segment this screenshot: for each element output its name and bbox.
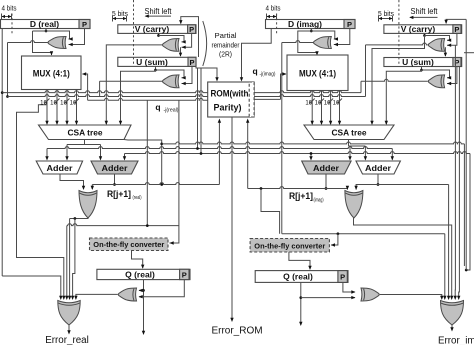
Adder left (gray) xyxy=(91,161,138,174)
wire into U (sum) right top xyxy=(444,47,446,56)
XOR gate of Q right parity xyxy=(361,288,379,301)
register D (real) xyxy=(1,20,91,29)
CSA tree right xyxy=(304,125,394,140)
svg-text:CSA tree: CSA tree xyxy=(68,128,103,138)
svg-text:-j(real): -j(real) xyxy=(164,108,179,114)
svg-text:MUX (4:1): MUX (4:1) xyxy=(299,68,336,78)
register U (sum) left xyxy=(118,57,196,66)
svg-text:16: 16 xyxy=(60,101,67,107)
wire junction to XOR-Dimag input a xyxy=(311,31,335,39)
long bus B2 (gray adder second inputs) xyxy=(124,154,126,160)
svg-text:P: P xyxy=(189,58,194,67)
wire P of D to XOR input b xyxy=(69,29,85,45)
horizontal bus L2 into ROM left xyxy=(6,95,9,98)
wire CSA-R output split to adders xyxy=(348,140,350,147)
Adder right (white) xyxy=(356,161,400,174)
left column wire v2: XOR-D parity to bus L2 xyxy=(7,43,9,97)
svg-text:P: P xyxy=(347,20,352,29)
right MUX output wires xyxy=(311,91,313,125)
wire XOR-V-R output to right CSA input xyxy=(366,43,428,45)
XOR gate of V (carry) right xyxy=(428,39,444,52)
svg-text:Q (real): Q (real) xyxy=(283,272,313,282)
shift-left annotation arrow (left) xyxy=(146,15,172,17)
wire D(imag) bottom junction xyxy=(310,29,312,32)
wire P of V-R to XOR input b xyxy=(447,33,457,45)
svg-text:P: P xyxy=(189,25,194,34)
wire D(real) bottom to junction xyxy=(45,29,47,32)
svg-text:4 bits: 4 bits xyxy=(2,4,17,13)
long cross line A to right final XOR xyxy=(162,142,465,144)
wire V bottom junction to XOR-V input a xyxy=(158,33,160,35)
parity bit P of U (sum) left xyxy=(188,57,196,66)
svg-text:Partial: Partial xyxy=(215,31,237,40)
wire Error_ROM output xyxy=(231,117,233,320)
svg-text:P: P xyxy=(340,273,345,282)
svg-text:(imag): (imag) xyxy=(314,198,324,204)
wire P of U-R to XOR input b xyxy=(447,67,457,84)
svg-text:(2R): (2R) xyxy=(219,50,232,59)
register Q (real) left xyxy=(97,269,190,279)
wire gray adder-R output to R-XOR-R and ROM feed B3R xyxy=(325,174,327,189)
svg-text:On-the-fly converter: On-the-fly converter xyxy=(93,240,164,249)
XOR gate of D (real) parity check xyxy=(48,37,66,49)
On-the-fly converter (right) xyxy=(250,239,329,253)
svg-text:5 bits: 5 bits xyxy=(112,9,128,18)
XOR gate of V (carry) left xyxy=(163,39,180,52)
wire shift wrap into V (carry) right top xyxy=(446,19,466,23)
register D (imag) xyxy=(266,20,356,29)
dashed bit line (right D) xyxy=(276,14,278,36)
svg-text:q: q xyxy=(253,66,258,76)
svg-text:16: 16 xyxy=(40,101,47,107)
svg-text:16: 16 xyxy=(315,101,322,107)
svg-text:CSA tree: CSA tree xyxy=(332,128,367,138)
left column wire v1: D register to final XOR input 1 xyxy=(1,29,3,277)
horizontal bus L1R from ROM right xyxy=(254,91,361,93)
wire to final XOR input 3 xyxy=(66,226,68,298)
svg-text:U (sum): U (sum) xyxy=(402,57,434,67)
wire U-R bottom to right CSA input xyxy=(386,70,421,124)
wire P of Q-L to XOR-Q input xyxy=(139,280,184,297)
wire Q-L output down and to XOR-Q input xyxy=(143,280,145,334)
XOR gate of U (sum) right xyxy=(428,75,444,88)
wire junction to XOR input a xyxy=(46,31,70,39)
svg-text:16: 16 xyxy=(50,101,57,107)
svg-text:Error_ROM: Error_ROM xyxy=(211,326,262,337)
wire converter-R output into Q (real) right xyxy=(289,252,310,269)
R[j+1] (real) XOR gate xyxy=(79,191,97,219)
svg-text:Shift left: Shift left xyxy=(411,7,439,16)
MUX (4:1) right xyxy=(287,55,348,91)
svg-text:-j(imag): -j(imag) xyxy=(260,72,276,78)
wire R-XOR output down-left to final XOR input 5 xyxy=(70,217,88,220)
On-the-fly converter (left) xyxy=(90,238,169,251)
wire XOR-U output down to bus xyxy=(100,80,162,82)
svg-text:V (carry): V (carry) xyxy=(135,24,170,34)
svg-text:D (imag): D (imag) xyxy=(288,19,322,29)
dashed bit line (right V/U) xyxy=(398,0,400,67)
parity bit P of D (real) xyxy=(79,20,90,29)
wire V-R bottom junction to XOR input a xyxy=(424,33,426,35)
svg-text:(real): (real) xyxy=(133,195,142,201)
svg-text:Q (real): Q (real) xyxy=(125,270,155,280)
right column: shift-wrap long feedback line xyxy=(465,19,467,270)
svg-text:D (real): D (real) xyxy=(30,19,59,29)
wire R-XOR-R output to final XOR input 4 xyxy=(354,218,452,298)
svg-text:Adder: Adder xyxy=(365,163,392,173)
svg-text:remainder: remainder xyxy=(212,40,240,49)
wire Q-R output down and to XOR-Q-R input xyxy=(300,282,302,324)
Adder right (gray) xyxy=(302,161,351,174)
right column: P-U-R parity down to final XOR input 6 xyxy=(458,67,461,298)
long bus B1 (second adder inputs, both halves) xyxy=(46,149,48,160)
wire XOR-V output to CSA input xyxy=(106,45,162,124)
dashed bit-boundary line (left D) xyxy=(11,14,13,36)
shift-left annotation arrow (right) xyxy=(410,16,437,18)
svg-text:V (carry): V (carry) xyxy=(401,24,436,34)
parity bit P of D (imag) xyxy=(344,20,355,29)
MUX left output wires (four, 16-bit) xyxy=(46,90,48,125)
partial remainder brace fragment (right edge) xyxy=(464,52,474,54)
wire P of D(imag) to XOR input b xyxy=(334,29,350,45)
left column wire v3: down to final XOR input 2 xyxy=(17,105,64,298)
wire white adder output to R-XOR xyxy=(60,174,84,189)
wire into U (sum) top xyxy=(180,47,182,56)
wire XOR-Dimag output long path to right converter and final XOR input 2 xyxy=(282,41,313,43)
svg-text:Error_real: Error_real xyxy=(45,335,89,345)
wire U-P region to ROM top input 1 xyxy=(196,66,217,80)
svg-text:P: P xyxy=(82,20,87,29)
Adder left (white) xyxy=(36,161,82,174)
svg-text:4 bits: 4 bits xyxy=(266,4,281,13)
wire XOR-U-R output to bus xyxy=(361,79,428,81)
wire ROM bottom input (right, from B3R) xyxy=(247,121,249,189)
wire shift wrap into V (carry) top xyxy=(181,17,199,57)
wire Error_imag output arrow xyxy=(451,325,453,330)
wire D(imag) to ROM top input 2 xyxy=(242,29,272,81)
svg-text:Shift left: Shift left xyxy=(145,7,173,16)
horizontal bus L1 into ROM left xyxy=(1,91,4,94)
wire P of V to XOR-V input b xyxy=(182,33,192,47)
wire white adder-R output to R-XOR-R and final XOR input 3 xyxy=(377,174,379,185)
center columns joining buses xyxy=(197,68,199,149)
register Q (real) right xyxy=(255,271,348,283)
wire Error_real output arrow xyxy=(68,325,70,333)
svg-text:U (sum): U (sum) xyxy=(136,57,168,67)
final parity XOR (Error_imag) xyxy=(441,301,464,326)
svg-text:5 bits: 5 bits xyxy=(378,9,394,18)
parity bit P of U right xyxy=(453,58,461,67)
svg-text:Adder: Adder xyxy=(313,163,340,173)
wire q(imag) from ROM to right MUX select xyxy=(254,98,280,100)
MUX (4:1) left xyxy=(22,56,82,90)
svg-text:P: P xyxy=(182,271,187,280)
wire XOR-D output going left (crosses MUX feed) xyxy=(8,41,48,43)
partial remainder brace (left) xyxy=(203,21,207,66)
XOR gate of U (sum) left xyxy=(163,75,180,88)
short link wire near CSA-L to B3 xyxy=(124,140,162,185)
right column: P-V-R parity down to final XOR input 5 xyxy=(454,45,456,297)
svg-text:Parity): Parity) xyxy=(214,103,242,113)
svg-text:16: 16 xyxy=(324,101,331,107)
svg-text:q: q xyxy=(155,102,160,112)
svg-text:16: 16 xyxy=(305,101,312,107)
parity bit P of V (carry) left xyxy=(188,25,196,34)
svg-text:MUX (4:1): MUX (4:1) xyxy=(33,68,70,78)
svg-text:Adder: Adder xyxy=(47,163,74,173)
wire U bottom to XOR-U input a xyxy=(155,66,157,70)
wire U bottom to CSA input xyxy=(121,70,156,124)
parity bit P of V right xyxy=(453,25,461,34)
wire P of Q-R to XOR-Q-R input xyxy=(343,282,355,292)
svg-text:R[j+1]: R[j+1] xyxy=(289,191,313,201)
parity bit P of Q left xyxy=(180,269,189,279)
XOR gate of Q (real) left parity xyxy=(118,288,136,301)
R[j+1] (imag) XOR gate xyxy=(345,191,363,219)
parity bit P of Q right xyxy=(338,271,347,283)
horizontal bus L2R from ROM right xyxy=(254,95,365,97)
wire V-R bottom to right CSA input xyxy=(372,36,425,125)
wire gray adder output to R-XOR and ROM feed B3L xyxy=(114,174,116,185)
wire junction to right MUX input xyxy=(298,31,317,55)
wire B3R tap down to converter-R feed line xyxy=(260,187,263,190)
wire P of U to XOR-U input b xyxy=(182,66,193,83)
svg-text:Error_imag: Error_imag xyxy=(438,336,474,345)
wire U-R bottom junction xyxy=(421,67,423,71)
register U (sum) right xyxy=(384,58,462,67)
svg-text:P: P xyxy=(454,25,459,34)
svg-text:R[j+1]: R[j+1] xyxy=(107,189,131,199)
wire CSA-L output split to adders xyxy=(84,140,86,145)
svg-text:On-the-fly converter: On-the-fly converter xyxy=(254,242,325,251)
wire converter-L output into Q (real) left xyxy=(132,251,143,268)
CSA tree left xyxy=(39,125,132,140)
svg-text:16: 16 xyxy=(333,101,340,107)
wire converter feed columns from q bus xyxy=(146,100,148,225)
wire XOR-Q-L output to final XOR input 6 xyxy=(76,294,118,297)
ROM (with Parity) xyxy=(208,82,254,117)
horizontal bus q(real) from ROM to MUX select xyxy=(88,98,208,100)
wire MUX select from q (real) bus xyxy=(83,74,88,100)
dashed bit line (left V/U) xyxy=(133,0,135,66)
final parity XOR (Error_real) xyxy=(58,301,80,326)
wire junction to MUX (4:1) left input xyxy=(33,30,47,32)
wire to final XOR input 4 xyxy=(69,219,71,298)
XOR gate of D (imag) parity xyxy=(314,37,332,49)
ROM parity column (dashed strip) xyxy=(249,82,254,117)
svg-text:ROM(with: ROM(with xyxy=(211,89,249,99)
svg-text:Adder: Adder xyxy=(102,163,129,173)
svg-text:16: 16 xyxy=(70,101,77,107)
wire XOR-Q-R output to final XOR input 1 xyxy=(380,295,442,298)
